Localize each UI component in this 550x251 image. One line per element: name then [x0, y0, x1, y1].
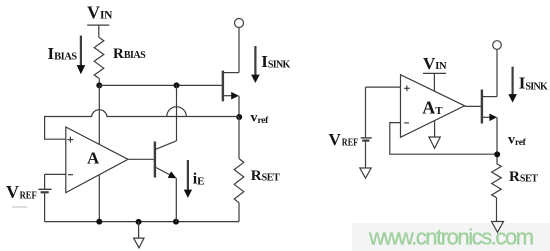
ground symbol VREF right — [360, 168, 371, 178]
svg-text:RBIAS: RBIAS — [113, 46, 146, 62]
wire vref node to RSET — [238, 117, 240, 159]
wire battery to bottom rail — [44, 193, 46, 221]
label VREF left — [6, 182, 37, 202]
wire opamp output to base — [128, 158, 154, 160]
node vref right dot — [494, 151, 500, 157]
svg-text:VIN: VIN — [423, 54, 447, 73]
svg-text:V: V — [329, 130, 342, 149]
wire opamp AT ground pin — [434, 121, 436, 138]
transistor M2 drain lead — [483, 96, 497, 98]
wire opamp ground pin — [98, 175, 100, 222]
terminal circle right — [493, 41, 502, 50]
battery VREF long plate — [38, 188, 51, 190]
node junction dot A — [96, 82, 102, 88]
resistor RSET left — [234, 159, 244, 203]
watermark band — [352, 223, 550, 251]
wire opamp AT output — [465, 105, 481, 107]
plus symbol right — [404, 86, 410, 92]
svg-text:www.cntronics.com: www.cntronics.com — [368, 225, 533, 250]
node junction dot B — [174, 82, 180, 88]
battery VREF right short plate — [362, 140, 369, 142]
svg-text:A: A — [87, 148, 100, 167]
wire drain up to terminal right — [496, 49, 498, 96]
op-amp AT — [401, 75, 465, 138]
node dot rail opamp — [96, 219, 102, 225]
transistor Q1 emitter with arrow — [156, 168, 177, 179]
label ISINK left — [261, 52, 290, 71]
wire source down to vref node — [238, 96, 240, 117]
op-amp A — [66, 127, 128, 193]
power rail bar VIN left — [87, 24, 109, 26]
minus symbol — [68, 174, 73, 176]
svg-text:RSET: RSET — [509, 169, 538, 185]
svg-text:ISINK: ISINK — [519, 74, 548, 93]
svg-text:ISINK: ISINK — [261, 52, 290, 71]
wire RBIAS to node — [98, 78, 100, 85]
svg-text:REF: REF — [20, 190, 37, 202]
resistor RSET right — [492, 164, 502, 198]
svg-text:AT: AT — [422, 98, 443, 118]
power rail bar VIN right — [423, 72, 446, 74]
wire RSET right down — [496, 198, 498, 222]
label AT — [422, 98, 443, 118]
node vref left dot — [236, 114, 242, 120]
label VREF right — [329, 130, 359, 149]
current arrow iE — [184, 160, 192, 198]
current arrow IBIAS — [77, 36, 86, 75]
svg-text:REF: REF — [342, 138, 359, 149]
svg-text:vref: vref — [508, 133, 527, 149]
wire minus feedback right — [390, 123, 497, 155]
plus symbol — [67, 137, 73, 143]
current arrow ISINK left — [251, 46, 260, 83]
wire RSET to rail — [238, 203, 240, 222]
transistor M2 source lead with arrow — [483, 114, 497, 122]
transistor Q1 collector — [156, 141, 177, 149]
wire minus input down to battery — [44, 174, 46, 188]
wire bottom rail — [45, 221, 239, 223]
svg-text:RSET: RSET — [251, 168, 280, 184]
faint mark under VREF — [12, 206, 27, 208]
svg-text:VIN: VIN — [87, 3, 113, 23]
label vref left — [251, 110, 270, 126]
label RBIAS — [113, 46, 146, 62]
ground symbol left — [134, 238, 144, 248]
wire battery right to ground — [365, 142, 367, 168]
wire plus input down to battery right — [365, 87, 367, 137]
wire feedback vref to +input with hops — [45, 107, 239, 139]
label vref right — [508, 133, 527, 149]
wire VIN right into opamp — [433, 73, 435, 91]
wire collector up to node B — [176, 85, 178, 140]
wire minus input — [45, 173, 66, 175]
ground symbol AT — [429, 137, 440, 148]
label A — [87, 148, 100, 167]
label RSET right — [509, 169, 538, 185]
svg-text:iE: iE — [193, 171, 205, 188]
wire drain up to terminal — [238, 28, 240, 73]
label VIN (left) — [87, 3, 113, 23]
wire ground stub — [138, 222, 140, 239]
wire opamp supply pin — [98, 85, 100, 144]
label RSET left — [251, 168, 280, 184]
label IBIAS — [48, 44, 78, 63]
watermark www.cntronics.com — [368, 225, 533, 250]
label iE — [193, 171, 205, 188]
wire source down to vref right — [496, 117, 498, 163]
node dot rail ground — [136, 219, 142, 225]
transistor Q1 base bar — [154, 142, 156, 178]
transistor M1 source lead with arrow — [224, 92, 239, 100]
wire VIN bar to RBIAS — [98, 25, 100, 37]
ground symbol RSET right — [492, 222, 504, 233]
battery VREF right long plate — [361, 137, 372, 139]
node dot rail emitter — [173, 219, 179, 225]
transistor M1 gate bar — [222, 71, 224, 102]
minus symbol right — [404, 122, 409, 124]
current arrow ISINK right — [508, 67, 517, 103]
wire emitter down to rail — [175, 178, 177, 222]
wire plus input right — [366, 86, 401, 88]
label ISINK right — [519, 74, 548, 93]
svg-text:V: V — [6, 182, 19, 202]
wire gate rail — [99, 84, 222, 86]
transistor M1 drain lead — [224, 72, 239, 74]
label VIN right — [423, 54, 447, 73]
svg-text:vref: vref — [251, 110, 270, 126]
transistor M2 gate bar — [481, 90, 483, 124]
resistor RBIAS — [94, 37, 104, 78]
battery VREF short plate — [41, 191, 49, 193]
terminal circle left — [235, 19, 244, 28]
svg-text:IBIAS: IBIAS — [48, 44, 78, 63]
